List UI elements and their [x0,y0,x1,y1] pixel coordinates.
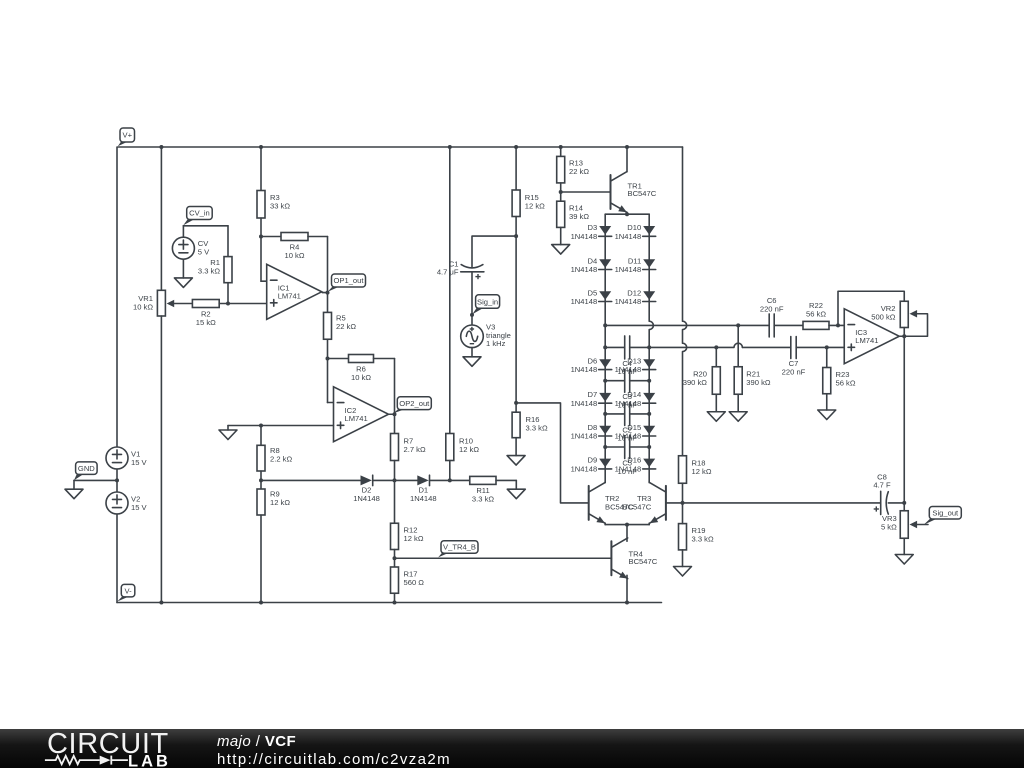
svg-text:D4: D4 [587,256,597,265]
wire w2 hop over R21 [649,343,742,347]
wire TR3 base [666,502,683,504]
resistor R8 [257,445,292,471]
capacitor C2 [617,402,637,442]
svg-text:1N4148: 1N4148 [615,265,642,274]
resistor R4 [281,233,308,260]
wire TR4 emitter [626,575,628,602]
junction [825,345,829,349]
diode D2 [353,475,380,503]
diode D16 [615,456,656,474]
CircuitLab logo [0,729,200,768]
wire [604,481,606,484]
svg-text:10 nF: 10 nF [617,367,637,376]
capacitor C1 [437,259,484,279]
diode D9 [571,456,612,474]
ground below R21 [729,412,747,422]
node GND [74,462,97,480]
svg-text:Sig_in: Sig_in [477,297,498,306]
resistor R9 [257,489,290,515]
diode D8 [571,423,612,441]
diode D5 [571,288,612,306]
node V+ [118,128,135,146]
svg-text:D6: D6 [587,356,597,365]
wire [742,346,790,348]
wire [682,483,684,503]
wire to IC1 inv [261,280,267,282]
svg-text:12 kΩ: 12 kΩ [525,201,545,210]
wire [917,524,928,526]
svg-text:10 nF: 10 nF [617,434,637,443]
svg-text:BC547C: BC547C [629,557,658,566]
wire [605,380,625,382]
svg-text:1N4148: 1N4148 [571,432,598,441]
voltage source V3 [461,325,484,348]
wire [182,226,184,237]
wire feedback VR2 [838,291,904,325]
svg-text:V-: V- [124,586,132,595]
wire [715,347,717,366]
wire [227,283,229,304]
svg-text:5 kΩ: 5 kΩ [881,522,897,531]
junction [625,145,629,149]
resistor R22 [803,301,829,329]
junction [226,302,230,306]
wire [261,236,281,238]
diode D3 [571,223,612,241]
junction [393,556,397,560]
ground below R11 [507,489,525,499]
svg-text:12 kΩ: 12 kΩ [404,534,424,543]
svg-text:BC547C: BC547C [623,503,652,512]
svg-text:LM741: LM741 [278,292,301,301]
voltage source V2 [106,492,128,514]
wire [183,225,228,227]
wire to C8 [683,502,881,504]
junction [159,601,163,605]
junction [326,291,330,295]
transistor TR1 [611,172,657,213]
svg-text:LM741: LM741 [855,336,878,345]
junction [259,424,263,428]
transistor TR2 [589,483,605,524]
wire [648,481,650,484]
ground below R20 [707,412,725,422]
wiper arrow VR3 [910,521,918,528]
junction [902,334,906,338]
svg-text:2.7 kΩ: 2.7 kΩ [404,445,426,454]
wire [394,593,396,602]
resistor R16 [512,412,548,438]
svg-text:1N4148: 1N4148 [615,297,642,306]
wire IC3 out [903,336,905,503]
svg-text:1N4148: 1N4148 [571,365,598,374]
diode D14 [615,390,656,408]
wire [630,413,650,415]
svg-text:10 kΩ: 10 kΩ [133,302,153,311]
wire [472,236,516,267]
node CV_in [183,207,212,226]
svg-text:D12: D12 [627,288,641,297]
wire [174,303,192,305]
wire VR2 wiper [904,314,927,337]
svg-text:10 nF: 10 nF [617,401,637,410]
node OP2_out [393,397,431,414]
svg-text:D10: D10 [627,223,641,232]
wire [605,446,625,448]
svg-text:3.3 kΩ: 3.3 kΩ [692,534,714,543]
wire [605,346,625,348]
ground at IC2 + [219,430,237,440]
svg-text:1N4148: 1N4148 [571,465,598,474]
junction [836,323,840,327]
junction [393,412,397,416]
junction [514,401,518,405]
wire [219,303,267,305]
op-amp IC1 [267,264,322,319]
wire [471,315,473,325]
junction [448,145,452,149]
svg-text:3.3 kΩ: 3.3 kΩ [526,423,548,432]
junction [470,313,474,317]
resistor R7 [391,434,426,461]
wire left diode column [604,214,606,482]
wire [903,328,905,337]
ground below VR3 [895,555,913,565]
wiper arrow VR2 [910,310,918,317]
wire [515,438,517,456]
svg-text:15 V: 15 V [131,503,148,512]
wire [260,147,262,191]
footer text [217,733,296,750]
capacitor C7 [782,337,806,377]
svg-text:OP2_out: OP2_out [399,399,430,408]
diode D10 [615,223,656,241]
resistor R6 [349,355,374,382]
wire [260,426,262,446]
svg-text:15 kΩ: 15 kΩ [196,318,216,327]
junction [603,323,607,327]
svg-text:220 nF: 220 nF [760,304,784,313]
svg-text:10 kΩ: 10 kΩ [351,373,371,382]
wire [626,212,628,214]
junction [625,212,629,216]
wire [829,324,844,326]
diode D7 [571,390,612,408]
capacitor C4 [617,336,637,376]
wire [261,479,361,481]
resistor R2 [192,300,219,327]
svg-text:12 kΩ: 12 kΩ [459,445,479,454]
wire [560,147,562,156]
wire [327,339,329,358]
node V- [117,584,135,601]
wire [260,218,262,237]
wire [560,227,562,244]
svg-text:1N4148: 1N4148 [571,265,598,274]
wire [327,359,329,403]
ground below CV [174,278,192,288]
wire right diode column [649,214,653,482]
wire [328,358,349,360]
resistor R13 [557,156,590,183]
junction [603,379,607,383]
wire [394,461,396,524]
junction [259,601,263,605]
svg-text:D7: D7 [587,390,597,399]
diode D6 [571,356,612,374]
junction [647,379,651,383]
wire to IC2 + [228,425,334,427]
svg-text:D5: D5 [587,288,597,297]
wire [826,394,828,410]
wire [308,236,328,238]
wire emitters [605,524,649,526]
wire feedback [327,237,329,293]
svg-text:1N4148: 1N4148 [571,232,598,241]
wire [903,538,905,554]
wire TR1 base [561,191,611,193]
diode D11 [615,256,656,274]
diode D1 [410,475,437,503]
resistor R5 [324,312,357,339]
wire [682,550,684,567]
ground GND [65,489,83,499]
junction [514,234,518,238]
wiper arrow VR1 [167,300,175,307]
wire [260,515,262,603]
wire [774,324,803,326]
svg-text:1 kHz: 1 kHz [486,339,506,348]
ground below R14 [552,245,570,255]
resistor R19 [679,524,714,550]
wire [449,461,451,481]
resistor R12 [391,523,424,549]
svg-text:4.7 F: 4.7 F [873,481,891,490]
resistor R17 [391,567,425,593]
svg-text:390 kΩ: 390 kΩ [746,378,771,387]
wire right rail [683,147,687,456]
wire [796,346,844,348]
svg-text:1N4148: 1N4148 [410,494,437,503]
svg-text:D3: D3 [587,223,597,232]
diode D12 [615,288,656,306]
svg-text:56 kΩ: 56 kΩ [836,378,856,387]
svg-text:CV_in: CV_in [189,209,210,218]
junction [326,357,330,361]
wire [682,503,684,524]
wire V2 to V- rail [116,514,118,603]
wire [260,237,262,282]
junction [559,190,563,194]
wire [373,479,418,481]
resistor R21 [734,367,771,395]
wire [515,480,517,489]
wire [449,147,451,434]
svg-text:Sig_out: Sig_out [932,508,959,517]
wire [630,446,650,448]
op-amp IC3 [844,309,899,364]
junction [647,345,651,349]
wire bottom rail [117,602,662,604]
wire [899,335,904,337]
transistor TR3 [650,483,666,524]
wire [903,503,905,511]
voltage source V1 [106,447,128,469]
voltage source CV [172,237,194,259]
junction [559,145,563,149]
svg-text:220 nF: 220 nF [782,367,806,376]
wire [626,525,628,542]
resistor VR3 [881,511,908,539]
svg-text:22 kΩ: 22 kΩ [336,322,356,331]
wire gnd lead [73,480,75,489]
svg-text:39 kΩ: 39 kΩ [569,212,589,221]
svg-text:5 V: 5 V [198,247,210,256]
resistor R11 [470,476,496,503]
wire [630,380,650,382]
node V_TR4_B [438,541,478,558]
diode D15 [615,423,656,441]
diode D13 [615,356,656,374]
resistor R1 [198,257,232,283]
svg-text:12 kΩ: 12 kΩ [270,498,290,507]
wire to GND flag [74,479,117,481]
wire [322,292,327,294]
junction [736,323,740,327]
diode D4 [571,256,612,274]
junction [681,501,685,505]
junction [448,478,452,482]
junction [259,478,263,482]
svg-text:V_TR4_B: V_TR4_B [443,543,476,552]
junction [714,345,718,349]
capacitor C6 [760,296,784,337]
wire [715,394,717,412]
junction [647,412,651,416]
wire to IC2 inv [328,402,334,404]
wire [630,346,650,348]
wire TR1 collector [626,147,628,172]
node OP1_out [328,274,366,292]
footer bar [0,729,1024,768]
junction [514,145,518,149]
wire V+ rail [118,146,683,148]
svg-text:390 kΩ: 390 kΩ [683,378,708,387]
svg-text:LM741: LM741 [345,414,368,423]
wire [560,183,562,201]
ground below R23 [818,410,836,420]
svg-text:2.2 kΩ: 2.2 kΩ [270,454,292,463]
wire V+ down to V1 [116,147,118,447]
svg-text:D9: D9 [587,456,597,465]
wire [394,359,396,415]
wire [160,147,162,290]
resistor R20 [683,367,721,395]
svg-text:560 Ω: 560 Ω [404,578,425,587]
resistor R10 [446,434,480,461]
junction [393,478,397,482]
resistor R3 [257,191,290,219]
capacitor C3 [617,369,637,409]
junction [603,412,607,416]
svg-text:OP1_out: OP1_out [334,276,365,285]
svg-text:15 V: 15 V [131,458,148,467]
svg-text:1N4148: 1N4148 [615,232,642,241]
wire to TR4 base [395,557,612,559]
wire [160,316,162,603]
svg-text:V+: V+ [123,131,133,140]
wire [327,293,329,313]
junction [115,478,119,482]
wire [515,147,517,190]
svg-text:GND: GND [78,464,95,473]
ground below V3 [463,357,481,367]
junction [902,501,906,505]
node Sig_in [472,295,499,314]
resistor VR2 [871,301,908,327]
wire [471,272,473,315]
junction [625,523,629,527]
wire [605,213,649,215]
wire [737,325,739,366]
wire [389,413,395,415]
svg-text:3.3 kΩ: 3.3 kΩ [472,494,494,503]
wire w1 [605,324,769,326]
wire V1-V2 [116,469,118,492]
node Sig_out [924,507,962,525]
svg-text:10 kΩ: 10 kΩ [284,251,304,260]
ground below R19 [674,567,692,577]
wire [826,347,828,367]
wire [227,426,229,431]
wire [496,479,516,481]
wire [471,348,473,357]
svg-text:3.3 kΩ: 3.3 kΩ [198,266,220,275]
capacitor C8 [873,472,891,514]
wire [737,394,739,412]
junction [159,145,163,149]
ground below R16 [507,456,525,466]
svg-text:LAB: LAB [128,753,171,768]
junction [647,445,651,449]
op-amp IC2 [334,387,389,442]
capacitor C5 [617,436,637,476]
svg-text:D11: D11 [628,256,641,265]
svg-text:4.7 μF: 4.7 μF [437,268,459,277]
resistor R14 [557,201,590,227]
svg-text:D8: D8 [587,423,597,432]
junction [393,601,397,605]
svg-text:12 kΩ: 12 kΩ [692,467,712,476]
wire [260,471,262,489]
wire [888,502,904,504]
wire [182,259,184,278]
junction [259,235,263,239]
svg-text:1N4148: 1N4148 [571,297,598,306]
resistor R15 [512,190,545,217]
junction [625,601,629,605]
wire [374,358,395,360]
svg-text:500 kΩ: 500 kΩ [871,312,896,321]
svg-text:33 kΩ: 33 kΩ [270,201,290,210]
wire [515,403,517,412]
wire [394,414,396,433]
wire [430,479,470,481]
svg-text:22 kΩ: 22 kΩ [569,167,589,176]
wire [515,217,517,403]
transistor TR4 [611,538,657,579]
wire [227,226,229,257]
